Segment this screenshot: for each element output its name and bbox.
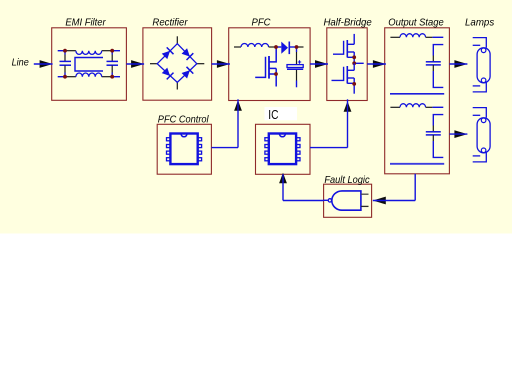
wire PFC Control riser [237, 99, 239, 147]
bottom lead [296, 70, 298, 81]
plus sign [298, 60, 301, 63]
wire EMI top-left blue stub [58, 50, 65, 52]
lamp 2 [473, 108, 490, 162]
svg-text:Line: Line [12, 56, 29, 68]
output bubble [328, 199, 331, 202]
wire rectifier right stub [197, 63, 205, 65]
wire Rectifier to PFC [212, 63, 230, 65]
lamp1 pin top B [473, 44, 481, 46]
wire Output Stage to Fault Logic [373, 200, 415, 202]
arrow into EMI Filter [40, 60, 53, 68]
lamp1 tube [477, 48, 490, 83]
wire PFC rail left segment [234, 46, 241, 48]
wire EMI bottom-right blue stub [112, 76, 120, 78]
wire section2 to right edge [432, 106, 443, 108]
diode D1 top-left (points to top) [161, 47, 173, 59]
wire PFC rail middle segment [269, 46, 275, 48]
svg-text:PFC: PFC [252, 17, 271, 29]
Output Stage internals section 2 [390, 104, 444, 164]
block Half-Bridge box [327, 28, 367, 101]
op-amp/IC chip PFC Control DIP-8 [167, 134, 202, 165]
svg-text:IC: IC [268, 108, 278, 122]
channel bar [268, 56, 270, 79]
drain tap [269, 47, 276, 62]
lamp2 tube [477, 118, 490, 153]
arrow into lamp 1 [454, 60, 467, 68]
wire rectifier left stub [150, 63, 157, 65]
capacitor C2 lead top [432, 126, 434, 132]
inductor EMI bottom coil (arcs upward) [76, 73, 102, 77]
lamp 1 [473, 38, 490, 92]
capacitor C1 plates [426, 61, 441, 63]
junction dot upper source [352, 55, 356, 59]
capacitor C1 lead bottom [432, 65, 434, 71]
wire HB drain top [353, 34, 355, 44]
capacitor C2 lead bottom [432, 135, 434, 141]
inductor EMI top coil (arcs downward) [76, 51, 102, 55]
lamp1 pin bottom A [473, 83, 487, 92]
svg-text:Fault Logic: Fault Logic [324, 174, 370, 186]
wire section2 lead left [390, 106, 400, 108]
block EMI Filter box [52, 28, 127, 101]
wire PFC rail right segment [297, 46, 304, 48]
diamond edges [157, 44, 197, 83]
wire Output Stage bottom down [414, 174, 416, 201]
rectifier bridge internals [150, 36, 204, 89]
wire rectifier bottom stub [176, 82, 178, 89]
wire PFC Control output [211, 147, 238, 149]
arrow into Output Stage [373, 60, 386, 68]
transistor upper MOSFET [333, 40, 354, 63]
wire Output Stage to lamp 2 [449, 133, 467, 135]
inductor PFC boost coil [241, 44, 269, 48]
lamp2 top electrode [481, 118, 486, 123]
common-mode choke core (open rectangle) [75, 58, 103, 72]
arrow into IC bottom [279, 173, 287, 184]
arrow into PFC bottom [234, 100, 242, 111]
lamp1 top electrode [481, 48, 486, 53]
capacitor EMI right plates [107, 60, 119, 62]
arrow into Rectifier [131, 60, 144, 68]
schematic background [0, 0, 512, 234]
capacitor EMI right lead bottom [111, 66, 113, 73]
block IC box [256, 124, 311, 174]
wire Output Stage to lamp 1 [449, 63, 467, 65]
capacitor PFC bulk electrolytic [287, 47, 303, 87]
svg-text:Output Stage: Output Stage [388, 17, 444, 29]
wire cap branch bottom 2 [433, 141, 443, 157]
wire EMI bottom-left blue stub [58, 76, 65, 78]
left pins [167, 138, 171, 141]
Half-Bridge internals [332, 34, 364, 94]
gate body [332, 191, 361, 210]
arrow into Half-Bridge [315, 60, 328, 68]
diode D4 bottom-right (points to right) [181, 67, 193, 79]
left pins [265, 138, 269, 141]
wire EMI top-right blue stub [112, 50, 120, 52]
wire section1 lead left [390, 36, 400, 38]
junction dot lower source [352, 82, 356, 86]
diode D3 bottom-left (points to bottom) [161, 67, 173, 79]
body tap [269, 67, 276, 69]
notch [181, 134, 187, 137]
wire HB midpoint to right [354, 62, 364, 64]
junction dot PFC output node [295, 45, 299, 49]
lamp1 bottom electrode [481, 78, 486, 83]
lamp1 pin top A [473, 38, 487, 48]
block PFC box [229, 28, 310, 101]
Output Stage internals section 1 [390, 34, 444, 94]
svg-text:Half-Bridge: Half-Bridge [323, 17, 371, 29]
capacitor EMI left lead bottom [64, 66, 66, 73]
arrow into lamp 2 [454, 130, 467, 138]
junction dot PFC drain node [274, 45, 278, 49]
block Fault Logic box [324, 184, 372, 217]
wire cap branch bottom [433, 71, 443, 87]
output lead [324, 199, 329, 201]
chip body [269, 134, 296, 165]
wire section2 return line [390, 163, 444, 165]
inductor resonant L1 [400, 34, 426, 38]
arrow into Fault Logic right side [373, 197, 386, 205]
junction dot PFC source node [274, 72, 278, 76]
junction dot HB midpoint [352, 61, 356, 65]
wire section1 lead right [426, 36, 433, 38]
diode PFC boost diode [276, 46, 281, 48]
wire IC riser [347, 99, 349, 147]
svg-text:Lamps: Lamps [465, 17, 495, 29]
capacitor EMI right lead top [111, 51, 113, 55]
diode D2 top-right (points to right) [181, 48, 193, 60]
source tap [269, 73, 276, 75]
top plate (boxed) [287, 65, 303, 68]
label IC white backing [265, 107, 298, 120]
wire Fault Logic output to IC [283, 200, 324, 202]
capacitor EMI left plates [60, 60, 72, 62]
NAND gate fault logic (facing left) [324, 191, 369, 210]
junction dots EMI [63, 49, 67, 53]
wire section2 lead right [426, 106, 433, 108]
wire EMI bottom rail left segment [65, 76, 76, 78]
capacitor C2 plates [426, 131, 441, 133]
capacitor C1 lead top [432, 56, 434, 62]
wire IC output to Half-Bridge [310, 147, 348, 149]
wire PFC to Half-Bridge [310, 63, 328, 65]
block PFC Control box [157, 124, 211, 174]
wire cap branch top [433, 45, 443, 56]
EMI filter internals [58, 49, 120, 79]
gate bar + gate lead [255, 57, 265, 78]
wire Half-Bridge to Output Stage [367, 63, 386, 65]
notch [279, 134, 285, 137]
wire EMI top rail left segment [65, 50, 76, 52]
wire cap branch top 2 [433, 115, 443, 126]
capacitor EMI left lead top [64, 51, 66, 55]
svg-text:EMI Filter: EMI Filter [65, 17, 106, 29]
inductor resonant L2 [400, 104, 426, 108]
source lead down [275, 68, 277, 86]
op-amp/IC chip ballast IC DIP-8 [265, 134, 300, 165]
wire Fault Logic riser to IC [282, 174, 284, 200]
lamp2 pin top A [473, 108, 487, 118]
lamp2 bottom electrode [481, 148, 486, 153]
wire section1 return line [390, 93, 444, 95]
lamp2 pin bottom B [473, 155, 481, 157]
wire Line input [34, 63, 53, 65]
top lead [296, 47, 298, 52]
lamp2 pin top B [473, 114, 481, 116]
svg-text:PFC Control: PFC Control [158, 114, 209, 126]
wire EMI Filter to Rectifier [126, 63, 144, 65]
bottom plate [287, 68, 303, 70]
transistor Q1 PFC MOSFET [255, 47, 276, 87]
block Rectifier box [143, 28, 212, 100]
wire rectifier top stub [176, 36, 178, 43]
lamp2 pin bottom A [473, 153, 487, 162]
arrow into Half-Bridge bottom [344, 101, 352, 112]
right pins [198, 138, 202, 141]
lamp1 pin bottom B [473, 85, 481, 87]
input stub top [361, 193, 369, 195]
transistor lower MOSFET [332, 63, 355, 93]
chip body [170, 134, 197, 165]
input stub bottom [361, 205, 369, 207]
wire section1 to right edge [432, 36, 443, 38]
svg-text:Rectifier: Rectifier [152, 17, 188, 29]
wire EMI bottom rail right segment [102, 76, 113, 78]
arrow into PFC [217, 60, 230, 68]
wire EMI top rail right segment [102, 50, 113, 52]
block Output Stage box [385, 28, 450, 174]
PFC internals [234, 42, 304, 88]
right pins [296, 138, 300, 141]
